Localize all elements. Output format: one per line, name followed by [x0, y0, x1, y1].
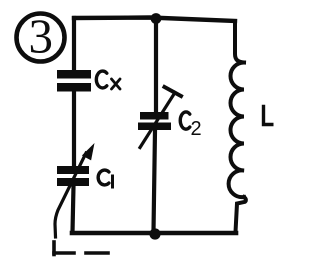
svg-text:2: 2	[191, 118, 202, 140]
svg-text:3: 3	[29, 9, 54, 64]
